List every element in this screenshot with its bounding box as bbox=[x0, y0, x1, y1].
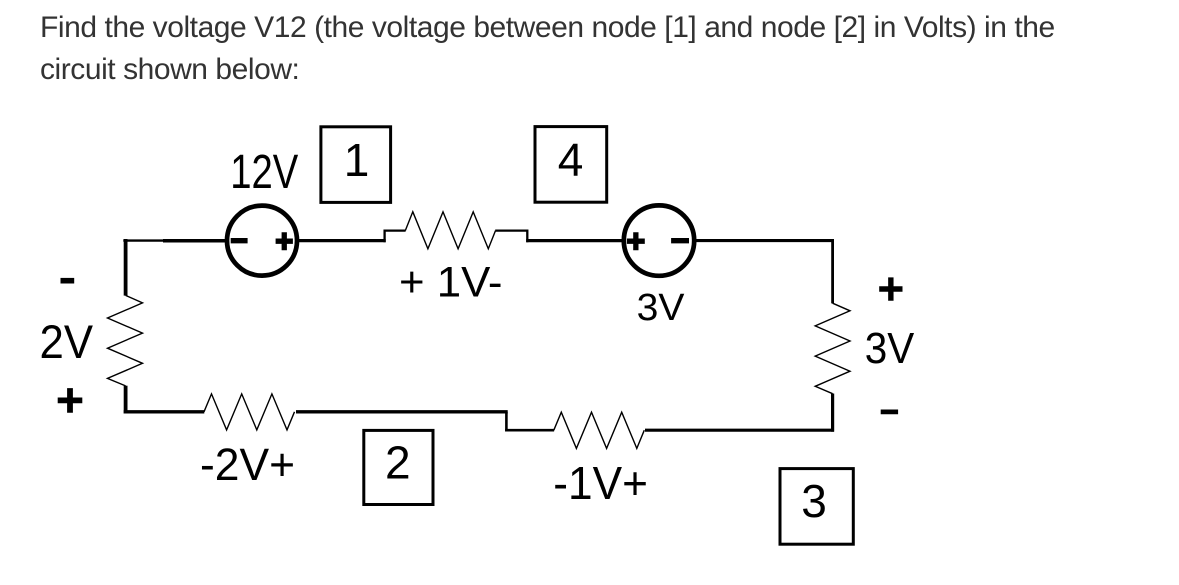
svg-text:+ 1V-: + 1V- bbox=[399, 259, 503, 307]
wire 1V resistor to 3V source bbox=[526, 239, 623, 242]
label - (bottom of right 3V resistor) bbox=[881, 409, 898, 414]
wire right vertical top bbox=[831, 240, 834, 304]
svg-text:4: 4 bbox=[558, 134, 584, 186]
wire left vertical bottom bbox=[124, 386, 128, 414]
12V source plus sign bbox=[276, 232, 293, 250]
12V source minus sign bbox=[231, 238, 248, 243]
wire right vertical bottom bbox=[831, 394, 834, 432]
right lead and step of 1V resistor bbox=[495, 231, 527, 243]
svg-text:-1V+: -1V+ bbox=[553, 457, 648, 509]
label + (bottom of 2V resistor) bbox=[58, 388, 83, 413]
wire 3V source to top-right corner bbox=[696, 239, 835, 242]
wire 12V source to resistor step bbox=[299, 239, 386, 242]
node box 1 bbox=[321, 127, 391, 203]
node box 3 bbox=[780, 469, 853, 545]
left step and lead of 1V resistor bbox=[385, 231, 406, 243]
svg-text:1: 1 bbox=[344, 134, 370, 186]
node box 4 bbox=[535, 127, 607, 203]
wire bottom-left right portion bbox=[296, 410, 508, 413]
resistor 1V horizontal zigzag bbox=[405, 212, 495, 249]
wire bottom-left left portion bbox=[124, 410, 205, 413]
svg-text:-2V+: -2V+ bbox=[200, 439, 295, 490]
svg-text:2: 2 bbox=[385, 437, 411, 489]
label + (top of right 3V resistor) bbox=[879, 277, 902, 300]
resistor 2V left vertical zigzag bbox=[108, 295, 143, 386]
resistor -1V zigzag bbox=[554, 412, 645, 448]
wire -1V resistor lead left bbox=[505, 429, 554, 432]
3V source minus sign bbox=[671, 238, 689, 243]
wire top-left horizontal thick segment bbox=[163, 239, 226, 243]
wire bottom-right horizontal bbox=[645, 429, 834, 432]
svg-text:12V: 12V bbox=[230, 146, 298, 199]
voltage source 12V circle bbox=[227, 206, 297, 276]
svg-text:2V: 2V bbox=[40, 315, 94, 368]
resistor 3V right vertical zigzag bbox=[815, 303, 850, 394]
resistor -2V zigzag bbox=[204, 394, 295, 430]
label - (top of 2V resistor) bbox=[61, 278, 75, 284]
node box 2 bbox=[364, 430, 433, 504]
svg-text:3V: 3V bbox=[865, 324, 915, 373]
voltage source 3V circle bbox=[624, 205, 694, 275]
svg-text:3V: 3V bbox=[637, 287, 685, 329]
svg-text:3: 3 bbox=[801, 475, 827, 527]
question text bbox=[40, 7, 1055, 91]
bottom step bbox=[505, 412, 508, 432]
wire top-left horizontal thin segment bbox=[123, 239, 163, 241]
3V source plus sign bbox=[627, 232, 645, 250]
wire left vertical top bbox=[124, 239, 128, 296]
